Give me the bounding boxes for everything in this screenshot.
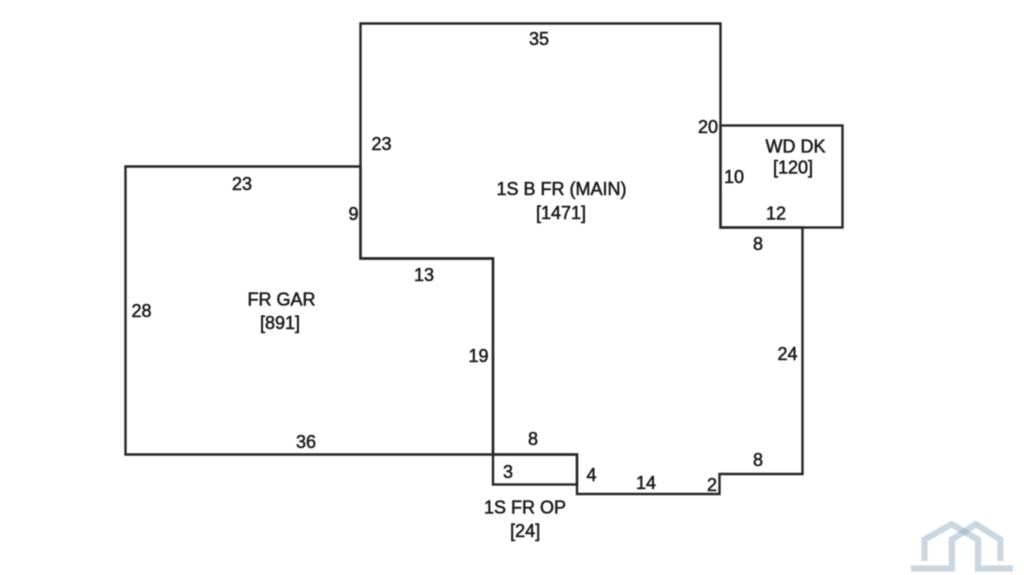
svg-text:28: 28 bbox=[131, 301, 151, 321]
svg-text:[891]: [891] bbox=[260, 313, 300, 333]
svg-text:[120]: [120] bbox=[773, 158, 813, 178]
garage FR GAR outline bbox=[126, 167, 494, 455]
svg-text:14: 14 bbox=[636, 473, 656, 493]
svg-text:8: 8 bbox=[528, 429, 538, 449]
open porch 1S FR OP outline bbox=[493, 455, 577, 485]
wood deck WD DK outline bbox=[721, 126, 843, 228]
right house outline with floor extending left bbox=[911, 524, 1000, 568]
svg-text:23: 23 bbox=[232, 174, 252, 194]
svg-text:[1471]: [1471] bbox=[536, 203, 586, 223]
watermark logo: two overlapping houses bbox=[911, 524, 1013, 568]
svg-text:9: 9 bbox=[348, 204, 358, 224]
svg-text:4: 4 bbox=[586, 465, 596, 485]
svg-text:[24]: [24] bbox=[510, 521, 540, 541]
svg-text:8: 8 bbox=[753, 450, 763, 470]
left house outline with floor extending right bbox=[925, 524, 1014, 568]
svg-text:19: 19 bbox=[468, 346, 488, 366]
svg-text:FR GAR: FR GAR bbox=[247, 290, 315, 310]
svg-text:12: 12 bbox=[766, 204, 786, 224]
svg-text:1S FR OP: 1S FR OP bbox=[484, 498, 566, 518]
svg-text:24: 24 bbox=[777, 344, 797, 364]
svg-text:10: 10 bbox=[724, 167, 744, 187]
svg-text:3: 3 bbox=[503, 462, 513, 482]
main dwelling outline 1S B FR (MAIN) bbox=[361, 24, 803, 495]
svg-text:2: 2 bbox=[707, 475, 717, 495]
svg-text:8: 8 bbox=[753, 234, 763, 254]
svg-text:20: 20 bbox=[698, 117, 718, 137]
svg-text:35: 35 bbox=[529, 29, 549, 49]
svg-text:1S B FR (MAIN): 1S B FR (MAIN) bbox=[496, 179, 626, 199]
svg-text:36: 36 bbox=[296, 432, 316, 452]
svg-text:23: 23 bbox=[371, 134, 391, 154]
svg-text:WD DK: WD DK bbox=[766, 137, 826, 157]
svg-text:13: 13 bbox=[414, 265, 434, 285]
